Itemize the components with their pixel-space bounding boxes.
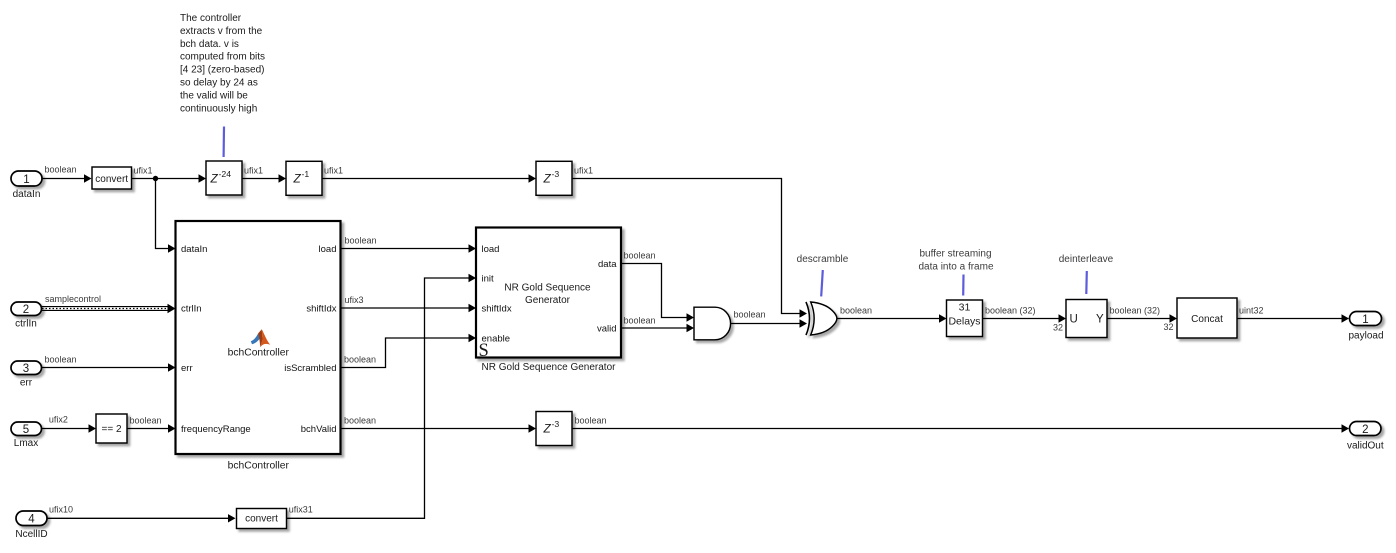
- svg-text:NcellID: NcellID: [15, 529, 47, 540]
- svg-text:32: 32: [1053, 323, 1063, 333]
- wire UY selector to Concat: [1107, 314, 1177, 322]
- svg-text:ctrlIn: ctrlIn: [181, 304, 202, 315]
- block convert 2: [237, 509, 287, 529]
- wire NcellID port to convert2: [47, 514, 236, 522]
- svg-text:isScrambled: isScrambled: [284, 363, 336, 374]
- wire err port to bchController: [41, 363, 176, 371]
- svg-text:-3: -3: [552, 169, 560, 179]
- svg-text:3: 3: [23, 363, 29, 375]
- block UY selector deinterleave: [1066, 300, 1107, 338]
- svg-text:deinterleave: deinterleave: [1059, 254, 1114, 265]
- wire bchValid to Z-3 bottom: [342, 424, 537, 432]
- svg-text:Z: Z: [293, 171, 302, 185]
- svg-text:2: 2: [1362, 424, 1368, 436]
- svg-text:1: 1: [1362, 314, 1368, 326]
- svg-text:boolean: boolean: [624, 250, 656, 260]
- svg-text:ufix1: ufix1: [134, 165, 153, 175]
- wire convert2 to NR init: [287, 274, 477, 519]
- svg-text:ufix1: ufix1: [244, 165, 263, 175]
- block Concat: [1177, 298, 1237, 338]
- wire XOR output to Delays: [837, 314, 947, 322]
- svg-text:2: 2: [23, 304, 29, 316]
- svg-text:init: init: [482, 274, 495, 285]
- input port 3 err: [11, 361, 42, 375]
- block Z-24 unit delay: [206, 161, 242, 195]
- wire Z-3 bottom to validOut: [572, 424, 1349, 432]
- annotation connector line to UY: [1085, 271, 1088, 294]
- svg-text:boolean: boolean: [130, 415, 162, 425]
- svg-text:boolean: boolean: [840, 306, 872, 316]
- block convert 1: [92, 167, 132, 189]
- XOR gate descramble: [806, 302, 837, 335]
- svg-text:boolean: boolean: [575, 416, 607, 426]
- svg-text:4: 4: [28, 514, 35, 526]
- svg-text:boolean: boolean: [345, 235, 377, 245]
- svg-text:boolean (32): boolean (32): [1110, 306, 1161, 316]
- svg-text:5: 5: [23, 424, 29, 436]
- input port 4 NcellID: [16, 511, 47, 526]
- svg-text:descramble: descramble: [797, 254, 849, 265]
- wire load to NR block: [342, 244, 477, 252]
- junction dot dataIn branch: [153, 176, 158, 181]
- svg-text:boolean: boolean: [344, 415, 376, 425]
- svg-text:buffer streaming: buffer streaming: [919, 249, 991, 260]
- wire dataIn port to convert: [42, 174, 92, 182]
- input port 5 Lmax: [11, 422, 42, 436]
- svg-text:convert: convert: [245, 513, 278, 524]
- svg-text:Generator: Generator: [525, 295, 571, 306]
- svg-text:NR Gold Sequence Generator: NR Gold Sequence Generator: [482, 362, 617, 373]
- svg-text:load: load: [482, 244, 500, 255]
- svg-text:load: load: [319, 244, 337, 255]
- output port 1 payload: [1350, 312, 1382, 326]
- wire eq2 to frequencyRange: [127, 424, 176, 432]
- svg-text:U: U: [1070, 314, 1078, 326]
- svg-text:shiftIdx: shiftIdx: [306, 304, 336, 315]
- wire AND output to XOR input 2: [731, 319, 808, 327]
- svg-text:err: err: [20, 378, 33, 389]
- wire branch dataIn down to bchController: [156, 179, 176, 253]
- svg-text:-1: -1: [302, 169, 310, 179]
- svg-text:ctrlIn: ctrlIn: [15, 319, 37, 330]
- annotation connector line to Delays: [962, 275, 964, 296]
- svg-text:computed from bits: computed from bits: [180, 52, 265, 63]
- svg-text:enable: enable: [482, 334, 511, 345]
- svg-text:uint32: uint32: [1239, 306, 1264, 316]
- svg-text:validOut: validOut: [1347, 441, 1384, 452]
- annotation paragraph about controller delay: [180, 13, 265, 114]
- svg-text:boolean: boolean: [734, 309, 766, 319]
- svg-text:ufix10: ufix10: [49, 505, 73, 515]
- svg-text:ufix1: ufix1: [324, 165, 343, 175]
- wire convert to Z-24: [132, 174, 207, 182]
- svg-text:== 2: == 2: [101, 424, 121, 435]
- wire isScrambled to NR enable: [342, 334, 477, 368]
- block NR Gold Sequence Generator subsystem: [476, 228, 621, 358]
- svg-text:NR Gold Sequence: NR Gold Sequence: [504, 283, 591, 294]
- input port 2 ctrlIn: [11, 302, 42, 316]
- svg-text:boolean: boolean: [344, 354, 376, 364]
- wire Concat to payload port: [1237, 314, 1349, 322]
- svg-text:Concat: Concat: [1191, 314, 1223, 325]
- wire NR valid to AND input 2: [621, 324, 694, 332]
- svg-text:Y: Y: [1096, 314, 1104, 326]
- block Z-1 unit delay: [286, 161, 322, 195]
- AND gate: [694, 307, 731, 340]
- svg-text:dataIn: dataIn: [181, 244, 207, 255]
- svg-text:boolean (32): boolean (32): [985, 306, 1036, 316]
- svg-text:payload: payload: [1348, 331, 1383, 342]
- svg-text:ufix3: ufix3: [345, 295, 364, 305]
- block Z-3 top delay: [536, 161, 572, 195]
- svg-text:convert: convert: [95, 174, 128, 185]
- svg-text:frequencyRange: frequencyRange: [181, 424, 251, 435]
- svg-text:valid: valid: [597, 324, 617, 335]
- svg-text:ufix1: ufix1: [574, 165, 593, 175]
- matlab logo in bchController: [251, 329, 270, 347]
- svg-text:data: data: [598, 259, 617, 270]
- svg-text:31: 31: [959, 302, 971, 314]
- svg-text:1: 1: [23, 174, 29, 186]
- svg-text:dataIn: dataIn: [13, 189, 41, 200]
- svg-text:bch data. v is: bch data. v is: [180, 39, 239, 50]
- svg-text:Z: Z: [543, 171, 552, 185]
- svg-text:samplecontrol: samplecontrol: [45, 294, 101, 304]
- annotation connector line to XOR: [821, 270, 823, 296]
- svg-text:Delays: Delays: [948, 315, 980, 327]
- svg-text:32: 32: [1163, 322, 1173, 332]
- svg-text:boolean: boolean: [624, 315, 656, 325]
- svg-text:The controller: The controller: [180, 13, 242, 24]
- svg-text:Z: Z: [210, 171, 219, 185]
- svg-text:-24: -24: [219, 169, 232, 179]
- svg-text:extracts v from the: extracts v from the: [180, 26, 263, 37]
- svg-text:bchController: bchController: [228, 460, 290, 471]
- annotation connector line to Z-24: [223, 127, 226, 158]
- svg-text:ufix2: ufix2: [49, 414, 68, 424]
- output port 2 validOut: [1350, 422, 1382, 436]
- svg-text:-3: -3: [552, 419, 560, 429]
- block 31 Delays: [947, 300, 983, 337]
- svg-text:shiftIdx: shiftIdx: [482, 304, 512, 315]
- bus wire ctrlIn samplecontrol: [41, 304, 176, 314]
- svg-text:err: err: [181, 363, 193, 374]
- svg-text:boolean: boolean: [45, 354, 77, 364]
- svg-text:bchController: bchController: [228, 348, 290, 359]
- input port 1 dataIn: [11, 171, 42, 186]
- svg-text:[4 23] (zero-based): [4 23] (zero-based): [180, 65, 265, 76]
- wire Delays to UY selector: [983, 314, 1067, 322]
- svg-text:continuously high: continuously high: [180, 103, 257, 114]
- block Z-3 bottom delay: [536, 412, 572, 446]
- svg-text:so delay by 24 as: so delay by 24 as: [180, 78, 258, 89]
- svg-text:boolean: boolean: [45, 165, 77, 175]
- wire NR data to AND input 1: [621, 264, 694, 322]
- block bchController subsystem: [176, 221, 341, 454]
- svg-text:bchValid: bchValid: [301, 424, 337, 435]
- svg-text:ufix31: ufix31: [289, 505, 313, 515]
- block eq2 compare to constant: [96, 414, 127, 443]
- svg-text:Lmax: Lmax: [14, 438, 38, 449]
- svg-text:the valid will be: the valid will be: [180, 90, 248, 101]
- wire Z-1 to Z-3 top: [322, 174, 536, 182]
- wire shiftIdx to NR block: [342, 304, 477, 312]
- wire Lmax port to eq2: [41, 424, 96, 432]
- svg-text:data into a frame: data into a frame: [918, 262, 993, 273]
- svg-text:Z: Z: [543, 422, 552, 436]
- wire Z-24 to Z-1: [242, 174, 286, 182]
- wire Z-3 top to XOR input 1: [572, 179, 807, 318]
